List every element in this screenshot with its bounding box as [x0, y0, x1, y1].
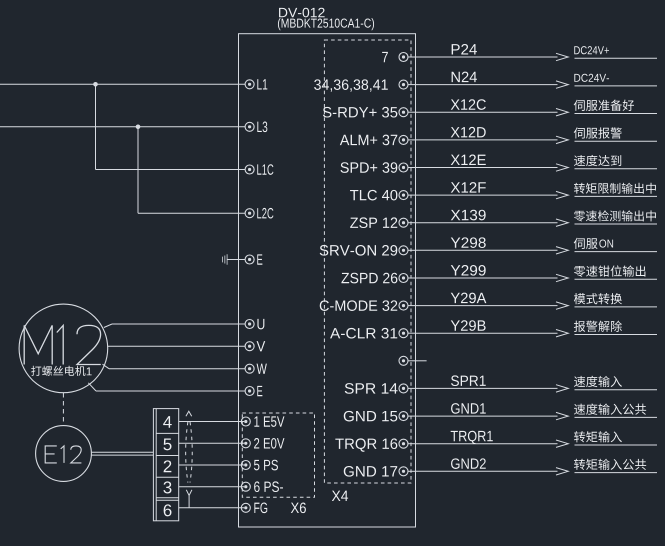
wire terminal 5 to pin 2 E0V	[179, 442, 245, 444]
wire M12 to U diagonal	[104, 324, 112, 328]
wire net TRQR1	[416, 443, 558, 445]
pin stub wire	[408, 167, 416, 169]
wire terminal 6 to pin FG	[179, 507, 245, 509]
wire net P24	[416, 56, 558, 58]
pin label 7 (pin 7)	[382, 52, 388, 62]
chassis ground symbol at pin E	[223, 254, 228, 265]
destination underline	[575, 168, 658, 170]
destination underline	[575, 223, 658, 225]
motor description 打螺丝电机1	[31, 366, 85, 376]
wire net X12E	[416, 167, 558, 169]
shield drain to FG (bottom Y)	[186, 490, 192, 508]
wire net Y298	[416, 249, 558, 251]
encoder E12 circle	[36, 426, 92, 482]
value label (MBDKT2510CA1-C) model number	[278, 18, 374, 30]
pin stub wire	[408, 249, 416, 251]
pin E (motor earth)	[245, 387, 254, 396]
pin L1C	[245, 165, 254, 174]
pin 6 PS-	[241, 482, 250, 491]
destination underline	[575, 472, 658, 474]
net label Y29A	[451, 293, 487, 304]
pin label TRQR 16 (pin 16)	[335, 438, 397, 451]
destination label 速度达到	[574, 155, 621, 166]
pin label E upper	[257, 254, 262, 264]
junction on wire L3	[136, 125, 141, 130]
leader arrow	[556, 136, 568, 143]
pin stub wire	[408, 332, 416, 334]
net label GND2	[451, 458, 486, 469]
servo drive component U1 DV-012 outline box	[239, 34, 416, 527]
pin label GND 17 (pin 17)	[344, 466, 397, 477]
pin label L2C	[257, 208, 273, 219]
pin stub wire	[408, 387, 416, 389]
pin L1	[245, 80, 254, 89]
wire net X12F	[416, 194, 558, 196]
pin GND 15	[399, 412, 408, 421]
wire E12 to terminal (upper)	[91, 451, 153, 453]
wire net X12C	[416, 111, 558, 113]
net label SPR1	[451, 375, 486, 386]
wire E12 to terminal (lower)	[91, 454, 153, 456]
destination label 速度输入	[574, 376, 622, 387]
pin 2 E0V	[241, 439, 250, 448]
leader arrow	[556, 164, 568, 171]
wire net N24	[416, 84, 558, 86]
destination underline	[575, 85, 658, 87]
pin FG	[241, 503, 250, 512]
destination label 零速检测输出中	[574, 210, 656, 221]
destination label 模式转换	[574, 293, 622, 304]
wire M12 to pin W	[109, 368, 245, 370]
pin label E	[257, 386, 262, 396]
destination label 零速钳位输出	[574, 265, 645, 276]
destination underline	[575, 444, 658, 446]
shielded cable symbol (dashed shield arc left)	[186, 422, 188, 483]
leader arrow	[556, 191, 568, 198]
dashed link M12 to E12	[62, 393, 64, 426]
destination label DC24V+	[574, 46, 609, 54]
wire net Y299	[416, 277, 558, 279]
destination underline	[575, 334, 658, 336]
wire net Y29A	[416, 305, 558, 307]
net label Y298	[451, 237, 486, 248]
leader arrow	[556, 330, 568, 337]
pin stub wire	[408, 443, 416, 445]
leader arrow	[556, 468, 568, 475]
pin ZSP 12	[399, 218, 408, 227]
pin label 6 PS-	[254, 481, 283, 492]
motor M12 circle	[19, 304, 108, 393]
pin GND 17	[399, 467, 408, 476]
destination underline	[575, 113, 658, 115]
pin label ZSPD 26 (pin 26)	[341, 273, 397, 284]
pin label 5 PS	[254, 460, 278, 471]
pin U	[245, 320, 254, 329]
wire L1 branch vertical	[95, 84, 97, 169]
destination label 转矩输入	[574, 431, 622, 442]
destination label 伺服报警	[574, 127, 622, 138]
terminal pin number 3	[163, 481, 171, 493]
net label GND1	[451, 403, 486, 414]
leader arrow	[556, 109, 568, 116]
wire M12 to pin U	[112, 323, 245, 325]
wire to pin L1C	[96, 169, 246, 171]
destination underline	[575, 416, 658, 418]
pin stub wire	[408, 415, 416, 417]
net label Y299	[451, 265, 486, 276]
pin L2C	[245, 209, 254, 218]
pin SRV-ON 29	[399, 246, 408, 255]
net label X12C	[451, 99, 486, 110]
destination label 速度输入公共	[574, 403, 646, 414]
destination label 报警解除	[574, 321, 622, 332]
leader arrow	[556, 412, 568, 419]
shielded cable symbol (top chevron)	[186, 411, 192, 416]
pin label V	[257, 341, 266, 351]
destination label 伺服准备好	[574, 100, 634, 111]
terminal pin number 2	[164, 460, 172, 472]
wire L1 from supply	[0, 83, 245, 85]
net label TRQR1	[451, 431, 493, 444]
destination label DC24V-	[574, 74, 609, 82]
wire net GND2	[416, 470, 558, 472]
destination underline	[575, 389, 658, 391]
pin stub wire	[408, 194, 416, 196]
leader arrow	[556, 274, 568, 281]
pin stub wire	[408, 111, 416, 113]
pin E (upper)	[245, 255, 254, 264]
pin stub wire	[408, 222, 416, 224]
leader arrow	[556, 53, 568, 60]
pin stub wire	[408, 56, 416, 58]
terminal pin number 4	[163, 416, 172, 428]
pin stub wire	[408, 84, 416, 86]
leader arrow	[556, 440, 568, 447]
wire net SPR1	[416, 387, 558, 389]
pin spare	[399, 356, 408, 365]
net label N24	[452, 72, 477, 82]
destination underline	[575, 195, 658, 197]
wire L3 branch vertical	[137, 127, 139, 213]
pin 5 PS	[241, 461, 250, 470]
leader arrow	[556, 247, 568, 254]
pin SPD+ 39	[399, 163, 408, 172]
shielded cable symbol (dashed shield arc right)	[190, 422, 192, 483]
pin label S-RDY+ 35 (pin 35)	[323, 107, 397, 118]
pin label ZSP 12 (pin 12)	[350, 217, 397, 228]
pin label L1C	[257, 164, 273, 175]
wire to pin L2C	[138, 212, 245, 214]
pin label SPD+ 39 (pin 39)	[340, 162, 397, 173]
pin label W	[257, 364, 267, 374]
terminal block connector outline	[153, 409, 178, 521]
wire terminal 2 to pin 5 PS	[179, 464, 245, 466]
pin A-CLR 31	[399, 329, 408, 338]
pin 1 E5V	[241, 417, 250, 426]
net label X12E	[451, 155, 486, 165]
pin stub wire	[408, 305, 416, 307]
pin label SPR 14 (pin 14)	[345, 383, 398, 394]
value label DV-012 (drive designator)	[279, 8, 325, 18]
pin W	[245, 364, 254, 373]
leader arrow	[556, 219, 568, 226]
destination underline	[575, 306, 658, 308]
wire terminal 3 to pin 6 PS-	[179, 486, 245, 488]
pin 7	[399, 53, 408, 62]
wire net X139	[416, 222, 558, 224]
pin label FG	[254, 503, 267, 514]
wire M12 to W diagonal	[103, 364, 110, 369]
pin label GND 15 (pin 15)	[344, 411, 398, 422]
encoder designator E12 (thin CAD strokes)	[45, 446, 81, 463]
connector designator X4	[332, 491, 348, 501]
wire M12 to pin E	[96, 390, 245, 392]
wire net Y29B	[416, 332, 558, 334]
wire net X12D	[416, 139, 558, 141]
pin label ALM+ 37 (pin 37)	[340, 135, 397, 146]
pin label L1	[257, 79, 267, 89]
pin label TLC 40 (pin 40)	[350, 190, 397, 201]
junction on wire L1	[93, 82, 98, 87]
wire ground to pin E	[227, 259, 245, 261]
pin ZSPD 26	[399, 274, 408, 283]
pin stub wire	[408, 277, 416, 279]
terminal pin number 5	[163, 439, 171, 451]
pin stub wire	[408, 360, 416, 362]
destination label 转矩限制输出中	[574, 183, 656, 194]
motor designator M12 (thin CAD strokes)	[24, 325, 101, 364]
leader arrow	[556, 81, 568, 88]
pin label L3	[257, 122, 267, 133]
destination label 转矩输入公共	[574, 459, 646, 470]
net label X139	[451, 210, 486, 221]
net label Y29B	[451, 320, 486, 331]
pin SPR 14	[399, 384, 408, 393]
leader arrow	[556, 385, 568, 392]
net label P24	[452, 44, 477, 54]
pin label SRV-ON 29 (pin 29)	[320, 245, 398, 256]
destination underline	[575, 140, 658, 142]
connector X4 dashed boundary	[324, 40, 411, 483]
wire M12 to pin V	[108, 345, 246, 347]
pin L3	[245, 122, 254, 131]
pin S-RDY+ 35	[399, 108, 408, 117]
wire L3 from supply	[0, 126, 245, 128]
pin stub wire	[408, 470, 416, 472]
net label X12F	[451, 182, 486, 192]
pin label 34,36,38,41 (pin 34,36,38,41)	[314, 79, 388, 91]
leader arrow	[556, 302, 568, 309]
pin ALM+ 37	[399, 135, 408, 144]
wire M12 to E diagonal	[88, 383, 96, 391]
destination underline	[575, 278, 658, 280]
pin label C-MODE 32 (pin 32)	[320, 300, 398, 311]
destination label 伺服ON	[574, 238, 598, 249]
wire stub (unused pin)	[416, 360, 427, 362]
pin stub wire	[408, 139, 416, 141]
destination underline	[575, 57, 658, 59]
connector designator X6	[291, 503, 306, 514]
pin V	[245, 342, 254, 351]
pin C-MODE 32	[399, 301, 408, 310]
pin TRQR 16	[399, 439, 408, 448]
pin label A-CLR 31 (pin 31)	[330, 328, 397, 339]
pin 34,36,38,41	[399, 80, 408, 89]
wire net GND1	[416, 415, 558, 417]
net label X12D	[451, 127, 486, 137]
pin label 1 E5V	[254, 416, 284, 426]
wire terminal 4 to pin 1 E5V	[179, 421, 245, 423]
destination underline	[575, 251, 658, 253]
connector X6 dashed boundary	[242, 413, 314, 497]
pin TLC 40	[399, 191, 408, 200]
pin label U	[257, 319, 264, 329]
pin label 2 E0V	[254, 438, 284, 449]
terminal pin number 6	[164, 504, 172, 516]
